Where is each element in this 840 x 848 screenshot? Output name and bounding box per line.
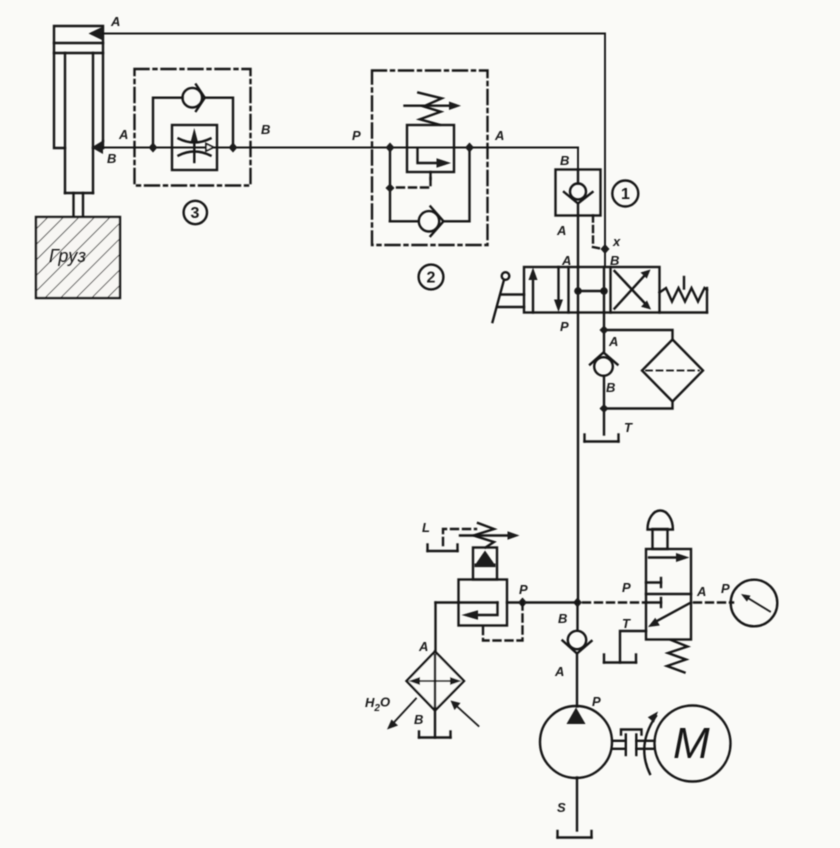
svg-text:x: x xyxy=(612,234,621,249)
svg-text:B: B xyxy=(558,611,567,626)
svg-text:P: P xyxy=(352,128,361,143)
svg-text:P: P xyxy=(592,694,601,709)
svg-text:B: B xyxy=(414,712,423,727)
svg-text:A: A xyxy=(118,127,128,142)
svg-text:B: B xyxy=(610,253,619,268)
svg-text:3: 3 xyxy=(191,205,200,222)
svg-text:A: A xyxy=(494,128,504,143)
svg-text:B: B xyxy=(107,151,116,166)
svg-text:Груз: Груз xyxy=(49,246,86,266)
svg-text:A: A xyxy=(554,664,564,679)
svg-text:P: P xyxy=(560,319,569,334)
svg-text:P: P xyxy=(519,582,528,597)
svg-text:A: A xyxy=(556,223,566,238)
svg-text:A: A xyxy=(696,584,706,599)
svg-text:1: 1 xyxy=(621,186,630,203)
svg-text:P: P xyxy=(622,580,631,595)
svg-text:A: A xyxy=(110,14,120,29)
svg-text:P: P xyxy=(721,581,730,596)
svg-text:B: B xyxy=(606,380,615,395)
svg-text:M: M xyxy=(673,719,710,768)
svg-text:A: A xyxy=(608,334,618,349)
svg-text:S: S xyxy=(557,800,566,815)
svg-text:L: L xyxy=(422,520,430,535)
svg-text:T: T xyxy=(624,420,633,435)
svg-text:B: B xyxy=(560,153,569,168)
svg-text:A: A xyxy=(418,639,428,654)
svg-text:B: B xyxy=(261,122,270,137)
svg-text:T: T xyxy=(622,616,631,631)
svg-text:A: A xyxy=(561,253,571,268)
svg-text:2: 2 xyxy=(427,270,436,287)
